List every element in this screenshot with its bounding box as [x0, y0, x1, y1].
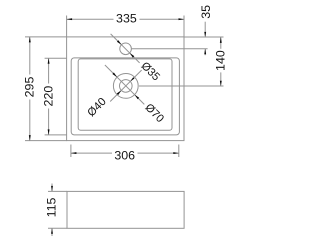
dim 35 lower stub: [204, 49, 206, 55]
diameter 35 leader line: [111, 34, 140, 63]
dim 335 extension line right: [183, 16, 185, 37]
sink outer rim rectangle (top view): [67, 37, 184, 141]
svg-text:295: 295: [23, 77, 37, 98]
dim 306 line: [71, 152, 112, 154]
dim 35 arrows: [204, 32, 206, 37]
svg-text:Ø70: Ø70: [142, 102, 165, 125]
diameter 40 arrows: [117, 90, 122, 95]
dim 115 lower stub: [51, 228, 53, 236]
dim 140 arrows: [220, 37, 222, 43]
dim 335 line: [67, 18, 114, 20]
side view rectangle: [67, 191, 184, 228]
dim 220 extension bottom: [45, 134, 67, 136]
diameter 35 arrows: [117, 40, 122, 45]
tap centre extension line: [132, 48, 208, 50]
tap hole circle: [120, 43, 132, 55]
dim 115 arrows: [51, 186, 53, 192]
svg-text:115: 115: [45, 198, 59, 218]
drain inner circle: [120, 80, 133, 93]
diameter 70 arrows: [112, 73, 117, 78]
dim 295 extension top: [25, 36, 67, 38]
bowl outer rounded rectangle: [71, 58, 179, 135]
svg-text:Ø35: Ø35: [138, 60, 161, 83]
bowl floor rounded rectangle: [78, 59, 172, 130]
dim 220 extension top: [45, 57, 67, 59]
svg-text:35: 35: [199, 5, 213, 19]
dim 35 upper stub: [204, 22, 206, 37]
dim 140 line: [220, 37, 222, 49]
dim 335 extension line left: [66, 16, 68, 37]
dim 115 upper stub: [51, 184, 53, 192]
dim 306 extension left: [70, 145, 72, 158]
dim 335 arrows: [67, 18, 73, 20]
drain centre extension line: [139, 85, 224, 87]
dim 295 line: [29, 37, 31, 75]
diameter 40 leader line: [110, 70, 141, 101]
svg-text:220: 220: [42, 86, 56, 107]
dim 295 arrows: [29, 37, 31, 43]
dim 295 extension bottom: [25, 140, 67, 142]
dim 306 extension right: [178, 145, 180, 158]
svg-text:335: 335: [116, 12, 137, 26]
dim 306 arrows: [71, 152, 77, 154]
dim 115 extension bottom: [48, 227, 67, 229]
svg-text:306: 306: [114, 149, 135, 163]
top edge extension to right (shared by 35 and 140): [184, 36, 224, 38]
svg-text:140: 140: [214, 50, 228, 71]
dim 115 extension top: [48, 190, 67, 192]
diameter 70 leader line: [105, 65, 144, 104]
drain outer circle: [113, 74, 138, 99]
svg-text:Ø40: Ø40: [85, 96, 108, 119]
dim 220 arrows: [48, 58, 50, 64]
dim 220 line: [48, 58, 50, 83]
